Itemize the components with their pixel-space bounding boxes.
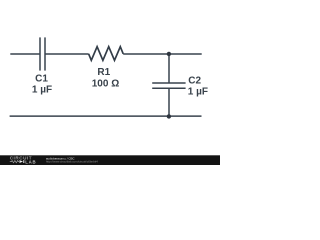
wire C2 down to bottom rail <box>168 88 170 116</box>
bottom junction dot <box>167 114 171 118</box>
capacitor C1 <box>39 37 41 70</box>
svg-text:C2: C2 <box>188 76 201 87</box>
capacitor C2 <box>152 82 185 84</box>
svg-text:LAB: LAB <box>25 159 36 164</box>
svg-text:1 µF: 1 µF <box>32 85 52 96</box>
resistor R1 <box>89 47 124 61</box>
svg-text:100 Ω: 100 Ω <box>92 79 119 90</box>
svg-text:1 µF: 1 µF <box>188 87 208 98</box>
svg-text:C1: C1 <box>35 74 48 85</box>
logo resistor squiggle <box>10 161 19 163</box>
svg-text:R1: R1 <box>97 67 110 78</box>
wire R1 to node A and output stub <box>123 53 202 55</box>
svg-text:http://www.circuitlab.com/circ: http://www.circuitlab.com/circuit/c6bnbk… <box>46 159 98 163</box>
node A junction dot <box>167 52 171 56</box>
footer bar <box>0 155 220 165</box>
wire node A down to C2 <box>168 54 170 83</box>
wire C1 to R1 <box>45 53 89 55</box>
wire bottom rail <box>10 115 202 117</box>
wire top-left input stub to C1 <box>10 53 40 55</box>
logo diode symbol <box>20 160 24 163</box>
